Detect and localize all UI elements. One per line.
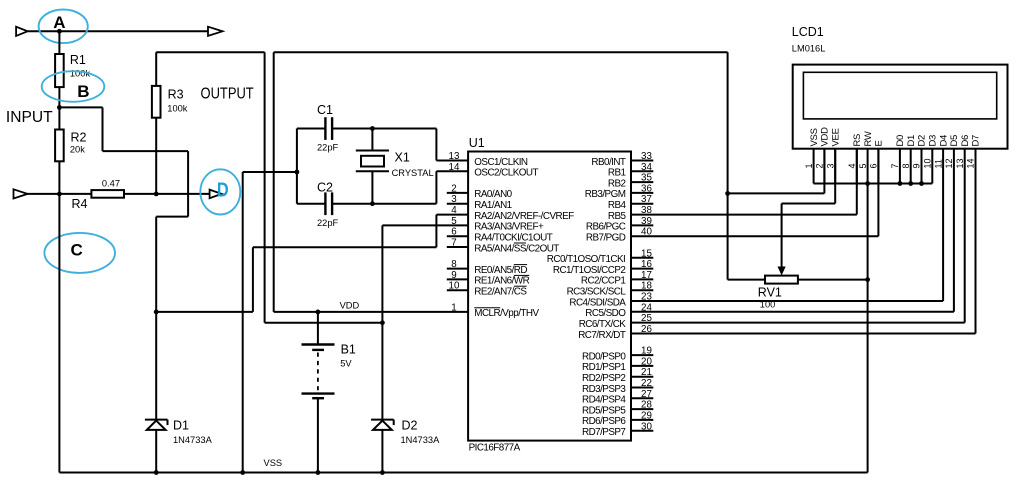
ellipse A [39,10,88,44]
svg-text:OSC2/CLKOUT: OSC2/CLKOUT [474,168,538,179]
svg-text:RD2/PSP2: RD2/PSP2 [582,373,625,384]
svg-text:6: 6 [451,227,457,238]
potentiometer RV1 wiper [781,204,783,270]
node R3 bottom junction [154,192,159,197]
svg-text:39: 39 [641,216,652,227]
svg-text:RB3/PGM: RB3/PGM [585,189,626,200]
svg-text:22pF: 22pF [317,143,339,153]
pin 28 RD5/PSP5 [631,408,653,410]
svg-text:E: E [874,140,885,146]
svg-text:21: 21 [641,367,652,378]
svg-text:29: 29 [641,410,652,421]
junction B1 top [316,310,321,315]
svg-text:1: 1 [804,163,814,168]
resistor R3 [152,86,161,118]
node C junction [57,192,62,197]
RA3 wire from pin 5 [382,224,468,226]
svg-text:16: 16 [641,259,652,270]
svg-text:RE0/AN5/RD: RE0/AN5/RD [474,265,527,276]
wire RA3 clamp row to D2 [265,322,383,324]
svg-text:CRYSTAL: CRYSTAL [392,168,434,178]
svg-text:D5: D5 [949,135,960,147]
pin 7 RA5/AN4/SS/C2OUT [447,246,468,248]
svg-text:14: 14 [966,158,976,168]
svg-text:9: 9 [451,270,456,281]
resistor R1 [55,54,64,87]
RA3 wire down to D2 [381,225,383,419]
RA2 wire up column [435,215,437,248]
svg-text:MCLR/Vpp/THV: MCLR/Vpp/THV [474,308,539,319]
svg-text:14: 14 [449,162,460,173]
svg-text:33: 33 [641,151,652,162]
svg-text:9: 9 [912,163,922,168]
svg-text:22pF: 22pF [317,218,339,228]
arrow D port [210,190,222,199]
potentiometer RV1 body [765,276,798,284]
wire R3 top up [155,52,157,86]
wire R2 to R4 node [58,161,60,194]
svg-text:VDD: VDD [820,127,831,147]
battery B1 [317,312,319,345]
svg-text:RC2/CCP1: RC2/CCP1 [581,276,626,287]
svg-text:30: 30 [641,421,652,432]
svg-text:37: 37 [641,194,652,205]
wire RV1 right to gnd column [798,279,868,281]
op U1 PIC16F877A body [468,152,631,441]
pin 35 RB2 [631,181,653,183]
pin 8 RE0/AN5/RD [447,268,468,270]
VDD column right side [727,52,729,279]
svg-text:RA5/AN4/SS/C2OUT: RA5/AN4/SS/C2OUT [474,243,559,254]
svg-text:100k: 100k [167,103,188,113]
svg-text:35: 35 [641,173,652,184]
wire right [103,150,189,152]
svg-text:RD0/PSP0: RD0/PSP0 [582,351,626,362]
svg-text:8: 8 [901,163,911,168]
LCD1 LM016L body [793,65,1008,149]
pin 30 RD7/PSP7 [631,430,653,432]
pin 21 RD2/PSP2 [631,376,653,378]
svg-text:R3: R3 [168,87,184,101]
svg-text:7: 7 [451,238,456,249]
wire VDD to LCD VDD pin [728,192,825,194]
svg-text:RB1: RB1 [608,168,627,179]
svg-text:RD3/PSP3: RD3/PSP3 [582,384,626,395]
wire RC4 to LCD D4 [631,300,943,302]
wire down crossing R4 row [187,151,189,217]
pin 22 RD3/PSP3 [631,387,653,389]
svg-text:RB0/INT: RB0/INT [591,157,626,168]
svg-text:X1: X1 [395,151,410,165]
svg-text:27: 27 [641,389,652,400]
svg-text:RB2: RB2 [608,178,626,189]
VDD rail top [274,51,728,53]
svg-text:RB7/PGD: RB7/PGD [586,233,626,244]
wire C node down to VSS rail [58,194,60,473]
svg-text:D6: D6 [960,135,971,147]
svg-text:RE1/AN6/WR: RE1/AN6/WR [474,276,529,287]
VSS ground rail [59,472,867,474]
junction crystal bottom [370,201,375,206]
svg-text:D1: D1 [906,135,917,147]
pin 10 RE2/AN7/CS [447,289,468,291]
wire R4 to D arrow [124,193,210,195]
pin 19 RD0/PSP0 [631,354,653,356]
crystal X1 [356,150,389,152]
wire caps gnd stub [243,171,297,173]
RA2 wire to D1 column [156,311,253,313]
svg-text:RD5/PSP5: RD5/PSP5 [582,405,626,416]
svg-text:6: 6 [869,163,879,168]
svg-text:OSC1/CLKIN: OSC1/CLKIN [474,157,528,168]
node B [57,105,62,110]
svg-text:RW: RW [863,131,874,146]
svg-text:D7: D7 [971,135,982,147]
wire C1C2 ground column [242,172,244,473]
wire RV1 left [728,279,765,281]
svg-text:11: 11 [933,159,943,168]
svg-text:RB5: RB5 [608,211,627,222]
svg-text:VDD: VDD [340,301,360,311]
svg-text:1N4733A: 1N4733A [173,435,213,445]
svg-text:VSS: VSS [264,458,283,468]
svg-text:RA2/AN2/VREF-/CVREF: RA2/AN2/VREF-/CVREF [474,211,574,222]
resistor R4 [91,190,124,198]
svg-text:RC1/T1OSI/CCP2: RC1/T1OSI/CCP2 [553,265,625,276]
svg-text:RD6/PSP6: RD6/PSP6 [582,416,626,427]
RA2 wire column [252,247,254,312]
svg-text:LM016L: LM016L [792,43,826,53]
resistor R2 [55,130,64,162]
svg-text:U1: U1 [469,136,485,150]
ellipse D [200,169,240,214]
svg-text:4: 4 [847,163,857,168]
wire R1 to R2 [58,87,60,129]
svg-text:RA0/AN0: RA0/AN0 [474,189,512,200]
pin 37 RB4 [631,203,653,205]
VDD column down to MCLR row [273,52,275,312]
svg-text:34: 34 [641,162,652,173]
zener diode D2 [371,419,394,421]
rail R3 top to clamp column [156,51,264,53]
pin 6 RA4/T0CKI/C1OUT [447,235,468,237]
pin 20 RD1/PSP1 [631,365,653,367]
svg-text:20: 20 [641,356,652,367]
junction caps gnd [295,170,300,175]
wire A to R1 [58,31,60,54]
LCD RW gnd column down to VSS rail [867,184,869,473]
wire R3 bottom to R4 node [155,118,157,194]
svg-text:10: 10 [449,281,460,292]
wire node A horizontal [28,30,208,32]
svg-text:5V: 5V [340,359,352,369]
svg-text:RC3/SCK/SCL: RC3/SCK/SCL [567,287,627,298]
MCLR VDD wire [274,311,468,313]
svg-text:RC4/SDI/SDA: RC4/SDI/SDA [569,297,626,308]
svg-text:2: 2 [815,163,825,168]
svg-text:5: 5 [451,216,457,227]
svg-text:13: 13 [955,158,965,168]
svg-text:13: 13 [449,151,460,162]
svg-text:VEE: VEE [830,128,841,146]
pin 15 RC0/T1OSO/T1CKI [631,257,653,259]
svg-text:R2: R2 [71,131,87,145]
capacitor C1 [297,128,326,130]
junction D2 top [380,320,385,325]
svg-text:R4: R4 [72,197,88,211]
zener diode D1 [145,419,168,421]
LCD display window [803,72,996,119]
wire OSC1 [435,129,437,161]
junction gnd column rail [240,470,245,475]
svg-text:3: 3 [825,163,835,168]
wire RC7 to LCD D7 [631,333,976,335]
svg-text:RC5/SDO: RC5/SDO [585,308,626,319]
svg-text:20k: 20k [70,145,85,155]
junction RA2 tap on D1 wire [154,310,159,315]
RA2 wire row [253,246,437,248]
wire RC6 to LCD D6 [631,322,965,324]
svg-text:A: A [53,13,65,32]
capacitor C2 [297,203,326,205]
svg-text:1: 1 [451,302,456,313]
junction D2 rail [380,470,385,475]
svg-text:D0: D0 [895,135,906,147]
svg-text:0.47: 0.47 [102,179,120,189]
junction crystal top [370,126,375,131]
svg-text:R1: R1 [70,53,86,67]
pin 34 RB1 [631,170,653,172]
svg-text:2: 2 [451,183,456,194]
svg-text:1N4733A: 1N4733A [401,435,441,445]
svg-text:19: 19 [641,346,652,357]
svg-text:B: B [77,82,89,101]
svg-text:LCD1: LCD1 [792,25,824,39]
wire down to D1 [155,217,157,420]
svg-text:D2: D2 [917,135,928,147]
pin 18 RC3/SCK/SCL [631,289,653,291]
svg-text:3: 3 [451,194,457,205]
pin 16 RC1/T1OSI/CCP2 [631,268,653,270]
svg-text:D4: D4 [938,135,949,147]
svg-text:RD4/PSP4: RD4/PSP4 [582,395,626,406]
svg-text:28: 28 [641,400,652,411]
wire caps left column [296,129,298,204]
junction B1 rail [316,470,321,475]
wire RA3 clamp column down [264,52,266,323]
wire RC5 to LCD D5 [631,311,954,313]
pin 2 RA0/AN0 [447,192,468,194]
svg-text:RE2/AN7/CS: RE2/AN7/CS [474,287,527,298]
svg-text:VSS: VSS [809,128,820,146]
pin 33 RB0/INT [631,160,653,162]
pin 3 RA1/AN1 [447,203,468,205]
svg-text:INPUT: INPUT [6,109,53,126]
svg-text:RB4: RB4 [608,200,627,211]
svg-text:22: 22 [641,378,652,389]
junction D1 rail [154,470,159,475]
RA2 wire into pin 4 [436,214,468,216]
svg-text:8: 8 [451,259,457,270]
pin 36 RB3/PGM [631,192,653,194]
svg-text:RC6/TX/CK: RC6/TX/CK [579,319,627,330]
pin 29 RD6/PSP6 [631,419,653,421]
svg-text:B1: B1 [341,343,356,357]
wire down [102,107,104,151]
junction VDD LCD [725,191,730,196]
LCD pin stubs to gnd bus [813,149,815,184]
svg-text:RD7/PSP7: RD7/PSP7 [582,427,625,438]
pin 39 RB6/PGC [631,224,653,226]
svg-text:PIC16F877A: PIC16F877A [469,442,521,453]
wire RB7 to LCD E [631,235,878,237]
svg-text:D: D [217,180,229,202]
junction RV1 gnd [865,277,870,282]
input port arrow middle [14,189,28,198]
wire RB5 to LCD RS [631,214,857,216]
svg-text:100: 100 [760,299,776,309]
arrow right of A [208,27,223,36]
svg-text:RV1: RV1 [758,285,782,299]
svg-text:D3: D3 [928,135,939,147]
ellipse C [44,233,115,273]
svg-text:4: 4 [451,205,457,216]
wire R4 row left [28,193,92,195]
svg-text:18: 18 [641,281,652,292]
svg-text:17: 17 [641,270,652,281]
wire left [156,216,188,218]
svg-text:C2: C2 [317,181,333,195]
svg-text:RA4/T0CKI/C1OUT: RA4/T0CKI/C1OUT [474,233,552,244]
wire VEE path [834,149,836,204]
svg-text:RD1/PSP1: RD1/PSP1 [582,362,626,373]
svg-text:36: 36 [641,183,652,194]
svg-text:RC7/RX/DT: RC7/RX/DT [578,330,626,341]
pin 27 RD4/PSP4 [631,397,653,399]
wire node B right [59,106,102,108]
svg-text:7: 7 [890,163,900,168]
svg-text:RC0/T1OSO/T1CKI: RC0/T1OSO/T1CKI [547,254,625,265]
svg-text:12: 12 [944,158,954,168]
pin 9 RE1/AN6/WR [447,278,468,280]
svg-text:RA3/AN3/VREF+: RA3/AN3/VREF+ [474,222,544,233]
svg-text:15: 15 [641,248,652,259]
svg-text:OUTPUT: OUTPUT [201,86,255,103]
svg-text:C: C [70,240,82,259]
node A [57,29,62,34]
ellipse B [42,71,105,102]
pin 17 RC2/CCP1 [631,278,653,280]
svg-text:RS: RS [852,134,863,147]
svg-text:5: 5 [858,163,868,168]
svg-text:C1: C1 [317,103,333,117]
svg-text:RA1/AN1: RA1/AN1 [474,200,512,211]
input port arrow top [16,27,28,36]
LCD gnd bus [814,183,933,185]
svg-text:10: 10 [923,158,933,168]
wire OSC2 [436,170,468,172]
svg-text:D2: D2 [402,419,418,433]
svg-text:RB6/PGC: RB6/PGC [586,222,626,233]
svg-text:D1: D1 [173,419,189,433]
